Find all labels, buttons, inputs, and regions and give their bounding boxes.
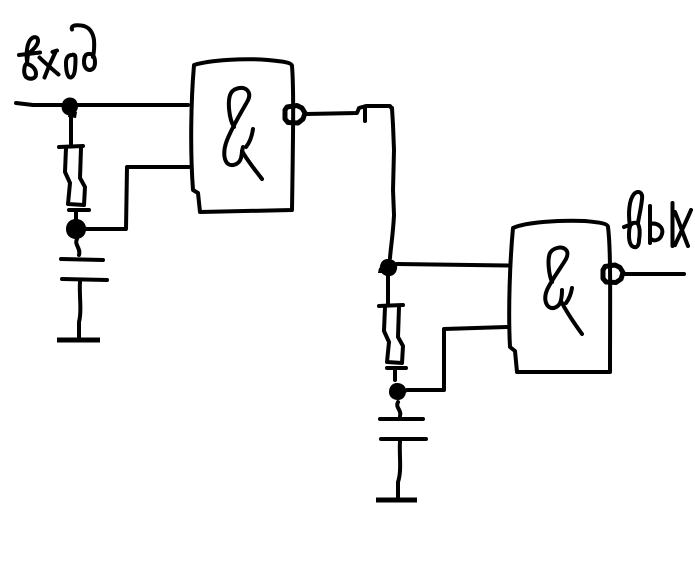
ground 2 xyxy=(376,498,417,503)
letter ы of Вых xyxy=(648,206,652,243)
wire: R2 bottom stub xyxy=(393,370,397,380)
wire: junction down to resistor R2 xyxy=(386,276,390,304)
label "Вых" (output) handwritten xyxy=(624,192,691,247)
wire: squiggle junction to capacitor C2 xyxy=(397,402,400,416)
inverter bubble on gate 1 output xyxy=(285,106,305,124)
resistor R2 xyxy=(379,305,403,306)
wire: gate1 output to the right with hook xyxy=(306,106,392,114)
wire: R1 bottom stub xyxy=(74,212,78,220)
NAND gate 2 body xyxy=(509,221,610,372)
wire: junction to gate2 upper input xyxy=(397,264,508,266)
wire: C1 to ground xyxy=(79,282,80,338)
wire: gate2 output xyxy=(625,272,684,276)
letter x of Вых xyxy=(675,212,688,246)
letter B of Вых xyxy=(629,192,642,226)
letter B of Вход xyxy=(24,37,38,79)
capacitor C1 xyxy=(61,259,103,260)
& symbol of gate 1 xyxy=(224,88,249,165)
node: input junction on wire xyxy=(62,98,78,116)
node: junction below R2 xyxy=(389,383,406,400)
letter d of Вход xyxy=(84,54,95,70)
& symbol of gate 2 xyxy=(545,248,582,334)
wire: junction to gate2 lower input xyxy=(407,327,507,390)
wire: junction to gate1 lower input xyxy=(86,167,189,229)
NAND gate 1 body xyxy=(191,59,293,212)
node: junction mid xyxy=(380,259,397,276)
wire: junction down to resistor R1 xyxy=(69,112,73,145)
label "Вход" (input) handwritten xyxy=(19,25,95,78)
wire: vertical down to junction xyxy=(390,108,394,258)
input wire xyxy=(16,103,188,105)
ground xyxy=(57,338,100,343)
node: junction below R1 xyxy=(66,219,86,239)
resistor R1 xyxy=(59,146,83,147)
wire: C2 to ground xyxy=(398,441,400,498)
letter x of Вход xyxy=(40,58,59,75)
letter o of Вход xyxy=(66,55,76,78)
capacitor C2 xyxy=(380,417,423,421)
wire: small tick xyxy=(363,107,367,121)
inverter bubble on gate 2 output xyxy=(603,265,623,283)
wire: squiggle junction to capacitor C1 xyxy=(76,239,79,255)
